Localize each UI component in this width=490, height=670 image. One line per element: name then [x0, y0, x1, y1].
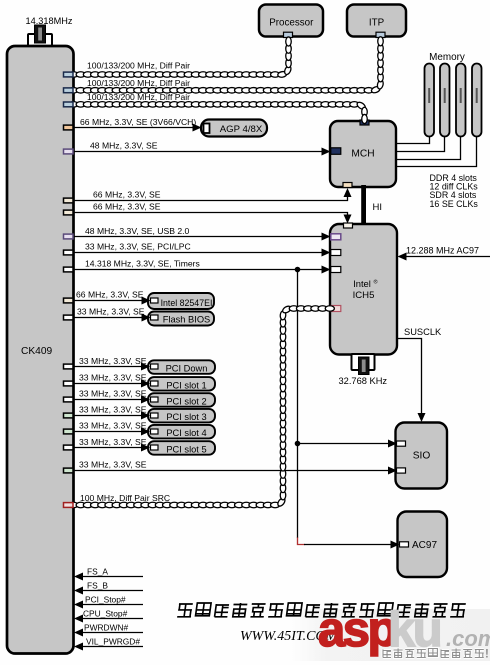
svg-text:PCI_Stop#: PCI_Stop#: [85, 594, 126, 604]
memory clock wires MCH to slots: [396, 137, 477, 167]
CK409 output pin y104.4: [64, 102, 74, 107]
svg-text:Flash BIOS: Flash BIOS: [163, 315, 211, 325]
svg-text:33 MHz, 3.3V, SE: 33 MHz, 3.3V, SE: [79, 356, 147, 366]
svg-text:CPU_Stop#: CPU_Stop#: [83, 608, 128, 618]
svg-text:ITP: ITP: [369, 17, 385, 28]
Processor box: [259, 5, 323, 37]
svg-text:®: ®: [373, 279, 377, 286]
svg-text:33 MHz, 3.3V, SE: 33 MHz, 3.3V, SE: [77, 307, 145, 317]
diff pair chain to MCH: [69, 101, 367, 124]
ITP box: [347, 5, 406, 37]
CK409 output pin y90.3: [64, 88, 74, 93]
svg-text:PCI Down: PCI Down: [166, 364, 208, 374]
CK409 output pin y317.5: [64, 315, 74, 320]
svg-text:FS_A: FS_A: [87, 566, 108, 576]
wire 12.288 MHz AC97 into ICH5: [398, 253, 490, 261]
ICH5 top clock pin: [344, 223, 353, 228]
svg-text:MCH: MCH: [351, 148, 374, 159]
crystal Y1 body: [35, 25, 46, 43]
svg-text:33 MHz, 3.3V, SE: 33 MHz, 3.3V, SE: [79, 460, 147, 470]
AC97 box: [398, 512, 448, 578]
svg-text:PCI slot 4: PCI slot 4: [166, 428, 206, 438]
svg-text:Memory: Memory: [429, 52, 465, 63]
Intel 82547EI pin: [151, 298, 159, 303]
ITP clock pin: [376, 32, 385, 37]
wire 33MHz to PCI slot 5: [74, 444, 151, 452]
svg-text:12.288 MHz AC97: 12.288 MHz AC97: [406, 246, 479, 256]
Chinese tagline white outlined: [383, 649, 489, 661]
svg-text:66 MHz, 3.3V, SE: 66 MHz, 3.3V, SE: [93, 202, 161, 212]
svg-text:66 MHz, 3.3V, SE (3V66/VCH): 66 MHz, 3.3V, SE (3V66/VCH): [80, 117, 196, 127]
ICH5 box: [330, 224, 397, 355]
svg-text:.com: .com: [446, 626, 490, 651]
SIO box: [396, 423, 448, 489]
svg-text:asp: asp: [318, 603, 396, 657]
CK409 output pin y447.5: [64, 445, 74, 450]
wire 48MHz to MCH: [74, 148, 331, 156]
wire red elbow to AC97: [298, 538, 306, 545]
svg-text:PWRDWN#: PWRDWN#: [84, 622, 129, 632]
CK409 output pin y252.5: [64, 250, 74, 255]
Intel 82547EI box: [148, 293, 214, 309]
wire 33MHz to PCI slot 4: [74, 428, 151, 436]
svg-text:33 MHz, 3.3V, SE: 33 MHz, 3.3V, SE: [79, 420, 147, 430]
SIO left pin 2: [397, 468, 406, 473]
svg-text:Intel: Intel: [353, 278, 371, 289]
svg-text:Intel 82547EI: Intel 82547EI: [161, 298, 213, 308]
svg-text:AC97: AC97: [412, 540, 437, 551]
HI bus MCH to ICH5: [361, 185, 366, 225]
PCI slot 1 pin: [151, 381, 159, 386]
wire 66MHz to ICH5 top pin: [74, 213, 352, 224]
CK409 output pin y300.5: [64, 298, 74, 303]
svg-text:48 MHz, 3.3V, SE, USB 2.0: 48 MHz, 3.3V, SE, USB 2.0: [85, 226, 190, 236]
svg-text:100 MHz, Diff Pair SRC: 100 MHz, Diff Pair SRC: [80, 493, 170, 503]
wire 66MHz to MCH bottom pin: [74, 188, 352, 201]
svg-text:66 MHz, 3.3V, SE: 66 MHz, 3.3V, SE: [76, 289, 144, 299]
crystal Y2 32.768 KHz pedestal: [352, 354, 375, 370]
svg-text:33 MHz, 3.3V, SE: 33 MHz, 3.3V, SE: [79, 388, 147, 398]
PCI slot 1 box: [148, 377, 215, 391]
clock generator CK409: [7, 46, 74, 654]
svg-text:PCI slot 5: PCI slot 5: [166, 444, 206, 454]
wire branch to AC97 pin: [304, 541, 400, 549]
ICH5 left pin Timers: [331, 267, 341, 273]
svg-text:PCI slot 3: PCI slot 3: [166, 412, 206, 422]
SIO left pin 1: [397, 441, 406, 446]
svg-text:SIO: SIO: [413, 451, 431, 462]
svg-text:HI: HI: [373, 202, 383, 213]
wire 33MHz to PCI Down: [74, 363, 151, 371]
crystal Y1 14.318MHz pedestal: [28, 34, 52, 46]
MCH top clock pin: [360, 120, 369, 125]
PCI slot 3 pin: [151, 413, 159, 418]
CK409 output pin y366.5: [64, 364, 74, 369]
svg-text:100/133/200 MHz, Diff Pair: 100/133/200 MHz, Diff Pair: [87, 78, 190, 88]
svg-text:33 MHz, 3.3V, SE: 33 MHz, 3.3V, SE: [79, 372, 147, 382]
junction dot Timers branch: [295, 267, 301, 273]
svg-text:100/133/200 MHz, Diff Pair: 100/133/200 MHz, Diff Pair: [87, 92, 190, 102]
MCH box: [330, 121, 396, 187]
wire 14.318MHz Timers to ICH5: [74, 266, 331, 274]
svg-text:66 MHz, 3.3V, SE: 66 MHz, 3.3V, SE: [93, 190, 161, 200]
svg-text:CK409: CK409: [21, 346, 52, 357]
svg-text:SUSCLK: SUSCLK: [404, 327, 442, 337]
wire 48MHz USB2.0 to ICH5: [74, 233, 331, 241]
svg-text:32.768 KHz: 32.768 KHz: [339, 376, 388, 386]
PCI slot 5 pin: [151, 445, 159, 450]
wire 66MHz 3V66 to AGP: [74, 124, 202, 132]
svg-text:48 MHz, 3.3V, SE: 48 MHz, 3.3V, SE: [90, 141, 158, 151]
CK409 output pin y383.5: [64, 381, 74, 386]
PCI Down pin: [151, 364, 159, 369]
junction dot SIO branch: [295, 441, 301, 447]
input wire VIL_PWRGD#: [74, 643, 143, 651]
PCI Down box: [148, 360, 215, 374]
wire 33MHz to PCI slot 2: [74, 396, 151, 404]
wire SUSCLK ICH5 to SIO: [397, 339, 426, 423]
Flash BIOS pin: [151, 315, 159, 320]
AGP clock pin: [204, 124, 210, 134]
CK409 output pin y470.5: [64, 468, 74, 473]
wire Timers branch vertical to SIO/AC97: [297, 270, 299, 539]
MCH left clock pin: [331, 148, 341, 155]
PCI slot 2 box: [148, 393, 215, 407]
CK409 output pin y212.5: [64, 210, 74, 215]
svg-text:33 MHz, 3.3V, SE: 33 MHz, 3.3V, SE: [79, 437, 147, 447]
input wire FS_B: [74, 587, 143, 595]
CK409 output pin y74.5: [64, 72, 74, 77]
ICH5 left pin PCI/LPC: [331, 250, 341, 256]
wire 66MHz to Intel 82547EI: [74, 297, 151, 305]
wire 33MHz to SIO pin 2: [74, 467, 398, 475]
diff pair SRC chain to ICH5: [69, 305, 334, 508]
svg-text:!: !: [485, 649, 489, 661]
label Intel ICH5: [353, 278, 378, 301]
crystal Y2 body: [359, 357, 370, 375]
ICH5 left pin USB: [331, 234, 341, 240]
diff pair chain to ITP: [69, 37, 384, 94]
ICH5 left pin SRC diff pair: [331, 306, 341, 312]
CK409 output pin y269.5: [64, 267, 74, 272]
memory slot 1: [425, 64, 435, 137]
svg-text:FS_B: FS_B: [87, 580, 108, 590]
CK409 output pin y236.5: [64, 234, 74, 239]
wire branch to SIO pin 1: [298, 440, 398, 448]
diff pair chain to Processor: [69, 37, 292, 78]
CK409 output pin SRC: [64, 503, 74, 508]
wire 33MHz to PCI slot 3: [74, 412, 151, 420]
CK409 output pin y415.5: [64, 413, 74, 418]
svg-text:33 MHz, 3.3V, SE, PCI/LPC: 33 MHz, 3.3V, SE, PCI/LPC: [85, 242, 191, 252]
CK409 output pin y200.5: [64, 198, 74, 203]
svg-text:VIL_PWRGD#: VIL_PWRGD#: [86, 636, 140, 646]
CK409 output pin y431.5: [64, 429, 74, 434]
svg-text:PCI slot 2: PCI slot 2: [166, 396, 206, 406]
Flash BIOS box: [148, 312, 214, 326]
svg-text:33 MHz, 3.3V, SE: 33 MHz, 3.3V, SE: [79, 404, 147, 414]
PCI slot 2 pin: [151, 397, 159, 402]
memory slot 2: [440, 64, 450, 137]
Chinese caption line: [177, 603, 466, 617]
Processor clock pin: [284, 32, 293, 37]
svg-text:AGP 4/8X: AGP 4/8X: [220, 124, 263, 135]
CK409 output pin y399.5: [64, 397, 74, 402]
wire 33MHz to PCI slot 1: [74, 380, 151, 388]
MCH bottom clock pin: [343, 183, 352, 188]
PCI slot 5 box: [148, 441, 215, 455]
label DDR 4 slots / 12 diff CLKs / SDR 4 slots / 16 SE CLKs: [430, 173, 479, 209]
wire 33MHz to Flash BIOS: [74, 314, 151, 322]
svg-text:Processor: Processor: [269, 17, 314, 28]
svg-text:ICH5: ICH5: [353, 290, 375, 301]
svg-text:PCI slot 1: PCI slot 1: [166, 380, 206, 390]
input wire PWRDWN#: [74, 629, 143, 637]
input wire CPU_Stop#: [74, 615, 143, 623]
wire 33MHz PCI/LPC to ICH5: [74, 249, 331, 257]
CK409 output pin y151.5: [64, 149, 74, 154]
svg-text:16 SE CLKs: 16 SE CLKs: [430, 199, 479, 209]
AGP 4/8X box: [201, 120, 267, 137]
AC97 left pin: [400, 542, 409, 547]
svg-text:14.318MHz: 14.318MHz: [26, 16, 73, 26]
svg-text:100/133/200 MHz, Diff Pair: 100/133/200 MHz, Diff Pair: [87, 61, 190, 71]
svg-text:14.318 MHz, 3.3V, SE, Timers: 14.318 MHz, 3.3V, SE, Timers: [85, 259, 200, 269]
input wire FS_A: [74, 573, 143, 581]
memory slot 4: [472, 64, 482, 137]
PCI slot 4 pin: [151, 429, 159, 434]
input wire PCI_Stop#: [74, 601, 143, 609]
CK409 output pin y127.5: [64, 125, 74, 130]
PCI slot 4 box: [148, 425, 215, 439]
PCI slot 3 box: [148, 409, 215, 423]
memory slot 3: [456, 64, 466, 137]
